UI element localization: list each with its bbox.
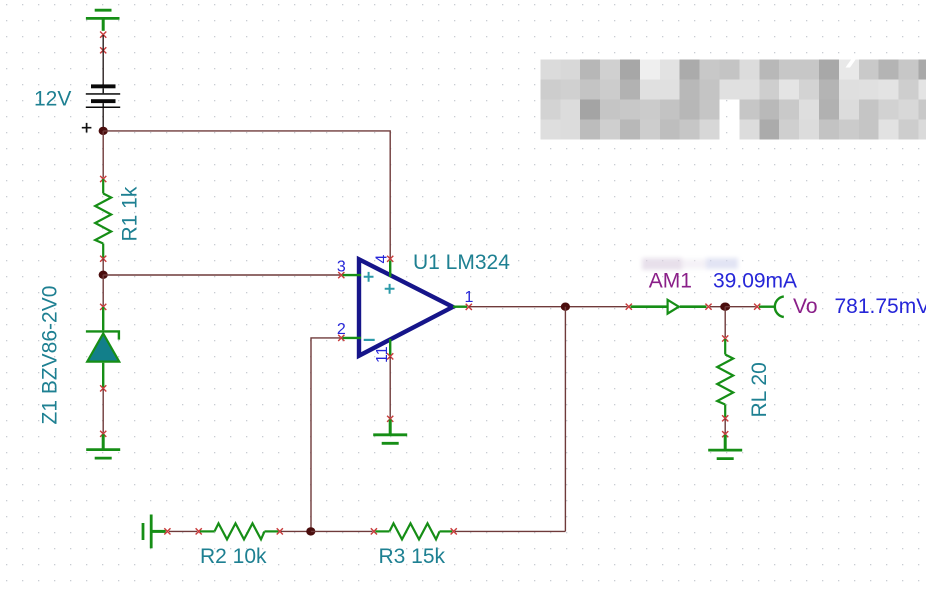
wire node B to Z1 — [102, 275, 104, 306]
pin 1 number — [465, 289, 474, 306]
pin 4 number — [373, 255, 390, 264]
pin end mark Z1 top — [100, 304, 106, 310]
wire R2 to node E — [281, 530, 311, 532]
label R2 10k — [200, 545, 267, 568]
pin 11 end mark — [387, 353, 393, 359]
label AM1 — [649, 270, 692, 293]
pin 2 stub — [343, 337, 362, 339]
svg-text:AM1: AM1 — [649, 270, 692, 293]
wire op-amp output to ammeter — [469, 306, 627, 308]
pin 1 end mark — [466, 304, 472, 310]
pin 4 stub — [389, 261, 391, 278]
pin end mark R3 left — [371, 528, 377, 534]
watermark mosaic block — [540, 60, 926, 140]
svg-text:39.09mA: 39.09mA — [713, 270, 797, 293]
pin end mark RL top — [722, 335, 728, 341]
wire RL to ground — [724, 419, 726, 433]
pin end mark ground below Z1 — [100, 431, 106, 437]
pin end mark R2 right — [277, 528, 283, 534]
svg-text:Vo: Vo — [793, 295, 818, 318]
ammeter reading 39.09mA — [713, 270, 797, 293]
ground below Z1 — [86, 434, 120, 458]
wire node D to output terminal — [725, 306, 756, 308]
pin end mark R3 right — [451, 528, 457, 534]
pin 3 stub — [343, 274, 362, 276]
svg-text:R2 10k: R2 10k — [200, 545, 267, 568]
pin end mark ground below op-amp — [387, 416, 393, 422]
battery plus polarity mark — [82, 123, 92, 133]
pin 11 stub — [389, 339, 391, 356]
label R1 1k — [119, 186, 142, 241]
node C junction dot — [561, 303, 570, 311]
zener diode Z1 BZV86-2V0 — [86, 307, 119, 388]
wire pin 11 to ground — [389, 357, 391, 418]
ground below RL — [708, 435, 742, 459]
wire battery to node A — [102, 108, 104, 127]
label R3 15k — [379, 545, 446, 568]
pin end mark ground below RL — [722, 431, 728, 437]
wire ground to R2 — [169, 530, 197, 532]
ammeter AM1 — [631, 300, 707, 314]
pin end mark Z1 bottom — [100, 385, 106, 391]
wire pin 2 to node E (feedback) — [311, 338, 340, 532]
svg-text:1: 1 — [465, 289, 474, 306]
pin 2 end mark — [338, 335, 344, 341]
node A junction dot (battery +) — [99, 127, 108, 135]
svg-text:U1 LM324: U1 LM324 — [413, 251, 510, 274]
resistor R1 1k — [95, 179, 111, 259]
svg-text:RL 20: RL 20 — [748, 362, 771, 417]
label 12V — [34, 88, 71, 111]
label Vo — [793, 295, 818, 318]
svg-text:R1 1k: R1 1k — [119, 186, 142, 241]
pin end mark ground-R2 wire left — [164, 528, 170, 534]
label RL 20 — [748, 362, 771, 417]
ammeter left end mark — [626, 304, 632, 310]
pin 2 number — [337, 321, 346, 338]
wire node E to R3 — [311, 530, 373, 532]
pin 4 end mark — [387, 256, 393, 262]
wire node A to R1 — [102, 131, 104, 178]
wire R3 to node C branch — [455, 530, 565, 532]
node E junction dot — [306, 527, 315, 535]
wire ammeter to node D — [710, 306, 725, 308]
inverting - marker — [364, 339, 375, 341]
wire Z1 to ground — [102, 389, 104, 433]
resistor R3 15k — [375, 523, 452, 539]
resistor R2 10k — [200, 523, 279, 539]
wire R1 to node B — [102, 259, 104, 275]
output terminal Vo — [759, 296, 784, 317]
label U1 LM324 — [413, 251, 510, 274]
op-amp U1 LM324 triangle — [359, 259, 453, 355]
pin 1 stub — [453, 306, 467, 308]
pin end mark R1 top — [100, 176, 106, 182]
pin-end marks between top ground and battery — [100, 32, 106, 54]
svg-text:11: 11 — [374, 346, 391, 363]
wire node A to op-amp pin 4 (top rail) — [103, 131, 390, 258]
non-inverting + marker — [364, 272, 374, 282]
node B junction dot — [99, 271, 108, 279]
pin 3 end mark — [338, 272, 344, 278]
wire node D down to RL — [724, 307, 726, 337]
ground (top, above battery) — [86, 10, 120, 31]
resistor RL 20 — [717, 339, 733, 417]
pin end mark R1 bottom — [100, 256, 106, 262]
output terminal end mark — [754, 304, 760, 310]
pin end mark R2 left — [196, 528, 202, 534]
pin 3 number — [337, 258, 346, 275]
svg-text:4: 4 — [373, 255, 390, 264]
battery V1 12V — [86, 84, 120, 108]
ground below op-amp — [373, 420, 407, 444]
svg-text:R3 15k: R3 15k — [379, 545, 446, 568]
ammeter right end mark — [705, 304, 711, 310]
svg-text:2: 2 — [337, 321, 346, 338]
ground left of R2 (rotated) — [143, 515, 166, 549]
faint watermark smudge above AM1 — [642, 258, 738, 270]
svg-text:12V: 12V — [34, 88, 71, 111]
wire ground to battery — [102, 35, 104, 85]
wire node C down to R3 — [564, 307, 566, 532]
wire node B to op-amp pin 3 — [103, 274, 340, 276]
svg-text:781.75mV: 781.75mV — [835, 295, 926, 318]
node D junction dot — [720, 303, 730, 311]
watermark white slash — [846, 58, 858, 68]
output reading 781.75mV — [835, 295, 926, 318]
pin 11 number — [374, 346, 391, 363]
svg-text:3: 3 — [337, 258, 346, 275]
pin end mark RL bottom — [722, 415, 728, 421]
svg-text:Z1 BZV86-2V0: Z1 BZV86-2V0 — [39, 286, 62, 425]
V+ supply marker — [385, 284, 395, 294]
label Z1 BZV86-2V0 — [39, 286, 62, 425]
